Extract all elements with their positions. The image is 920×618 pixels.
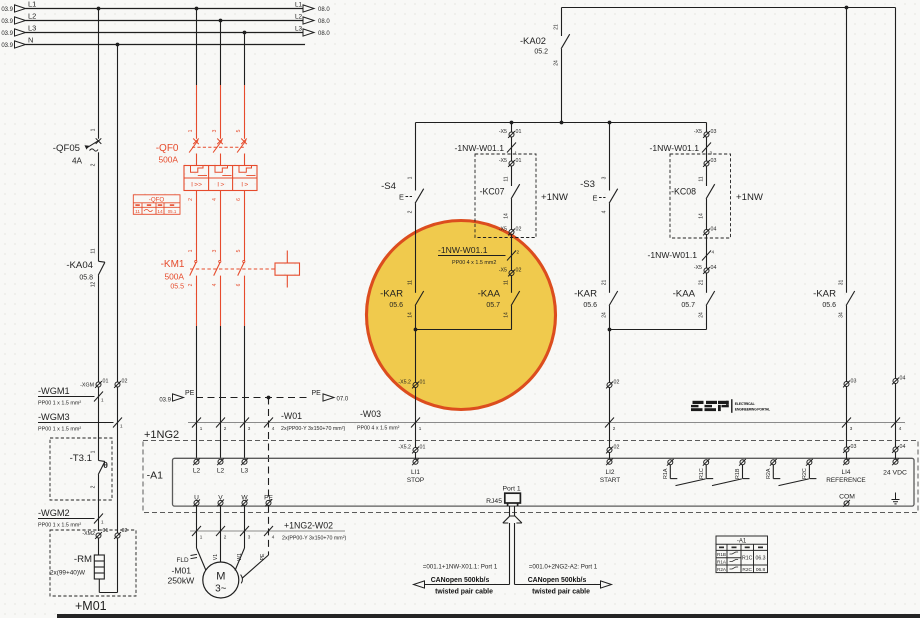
svg-text:11: 11 (408, 280, 414, 285)
svg-text:24: 24 (699, 312, 705, 318)
svg-text:L2: L2 (28, 12, 36, 21)
svg-text:05.7: 05.7 (486, 302, 500, 309)
svg-text:-X5.2: -X5.2 (398, 445, 411, 451)
svg-text:12: 12 (91, 282, 97, 288)
relay contact blade R2C (779, 479, 809, 486)
svg-text:500A: 500A (164, 272, 184, 282)
svg-text:03: 03 (711, 129, 717, 135)
svg-text:01: 01 (103, 379, 109, 385)
svg-text:1: 1 (120, 424, 123, 429)
svg-text:LI1: LI1 (411, 469, 420, 476)
node L2-QF0 (219, 19, 223, 23)
relay contact KA02 (561, 8, 563, 37)
svg-text:L2: L2 (193, 468, 201, 475)
wire L3 to QF0 pole 5 (244, 33, 246, 86)
svg-text:02: 02 (516, 268, 522, 274)
svg-text:N: N (28, 36, 33, 45)
svg-text:3: 3 (710, 151, 713, 156)
svg-text:twisted pair cable: twisted pair cable (435, 589, 493, 596)
svg-text:-RM: -RM (74, 554, 92, 565)
svg-text:05.1: 05.1 (168, 209, 177, 214)
svg-text:+1NW: +1NW (541, 192, 569, 203)
svg-text:R2C: R2C (742, 567, 752, 573)
svg-text:R1A: R1A (663, 468, 669, 479)
svg-text:R2A: R2A (766, 468, 772, 479)
svg-text:03: 03 (851, 444, 857, 450)
node top right (845, 6, 849, 10)
bus line L3 (26, 32, 304, 34)
svg-text:REFERENCE: REFERENCE (826, 477, 865, 484)
svg-text:3: 3 (850, 426, 853, 431)
svg-text:03.9: 03.9 (1, 19, 13, 25)
svg-text:14: 14 (157, 209, 163, 215)
svg-text:L1: L1 (28, 0, 36, 9)
bus line N (26, 44, 306, 46)
svg-text:2: 2 (613, 426, 616, 431)
svg-text:-KAA: -KAA (673, 289, 696, 300)
svg-text:03.9: 03.9 (1, 31, 13, 37)
svg-text:PP00 1 x 1.5 mm²: PP00 1 x 1.5 mm² (38, 401, 81, 407)
node S3 feed (608, 121, 612, 125)
svg-text:-1NW-W01.1: -1NW-W01.1 (647, 250, 697, 260)
svg-text:θ: θ (103, 460, 108, 470)
svg-text:24 VDC: 24 VDC (883, 470, 907, 477)
svg-text:ELECTRICAL: ELECTRICAL (735, 402, 756, 406)
A1 relay terminal R2C (806, 459, 813, 466)
svg-text:11: 11 (699, 176, 705, 181)
interlock enclosure 1NW KC08 (670, 154, 731, 238)
A1 relay terminal R1A (667, 459, 674, 466)
svg-text:5: 5 (236, 249, 242, 252)
svg-text:=001.1+1NW-X01.1: Port 1: =001.1+1NW-X01.1: Port 1 (423, 564, 498, 571)
svg-text:3: 3 (248, 426, 251, 431)
contactor KM1 pole 5 (244, 191, 246, 248)
braking resistor RM enclosure (50, 530, 136, 596)
svg-text:L3: L3 (28, 24, 36, 33)
svg-text:L2: L2 (295, 13, 303, 20)
wire to A1 24VDC (895, 384, 897, 448)
svg-text:03.9: 03.9 (1, 7, 13, 13)
A1 terminal LI4 (843, 458, 850, 465)
wire U to motor (196, 505, 198, 548)
svg-text:4: 4 (602, 210, 608, 213)
wire L1 to QF05 (98, 9, 100, 139)
wire QF05 to KA04 (98, 152, 100, 261)
svg-text:-W03: -W03 (360, 409, 381, 419)
svg-text:-1NW-W01.1: -1NW-W01.1 (454, 143, 504, 153)
svg-text:21: 21 (699, 280, 705, 286)
svg-text:-QF0: -QF0 (156, 143, 179, 154)
svg-text:I >: I > (217, 182, 224, 189)
relay contact blade R1B (712, 479, 742, 486)
svg-text:11: 11 (504, 280, 510, 285)
svg-text:-X5: -X5 (499, 158, 507, 164)
breaker QF0 release box (184, 166, 257, 191)
svg-text:02: 02 (614, 445, 620, 451)
wire L1 to QF0 pole 1 (196, 9, 198, 86)
terminal X5:03 (703, 131, 710, 138)
wire X5.2 to A1 LI1 (415, 388, 417, 448)
svg-text:3: 3 (602, 176, 608, 179)
svg-text:-S3: -S3 (580, 179, 595, 190)
svg-text:4A: 4A (72, 157, 83, 166)
node L3-QF0 (243, 31, 247, 35)
svg-text:2: 2 (224, 426, 227, 431)
svg-text:L2: L2 (217, 468, 225, 475)
svg-text:11: 11 (504, 176, 510, 181)
node KAR KAA join (414, 328, 418, 332)
svg-text:2: 2 (517, 250, 520, 255)
svg-text:START: START (600, 477, 620, 484)
PE wire to A1 (268, 398, 270, 500)
svg-text:-QF05: -QF05 (53, 143, 80, 154)
A1 relay terminal R1C (703, 459, 710, 466)
terminal X5.2:01 (412, 382, 419, 389)
svg-text:5: 5 (236, 129, 242, 132)
svg-text:05.2: 05.2 (534, 49, 548, 56)
wire KAA right join (610, 329, 707, 331)
svg-text:-KAR: -KAR (380, 289, 403, 300)
svg-text:-X5.2: -X5.2 (398, 380, 411, 386)
svg-text:-X5: -X5 (694, 129, 702, 135)
svg-text:01: 01 (516, 158, 522, 164)
wire N to XGM (117, 45, 119, 383)
svg-text:W1: W1 (237, 553, 243, 561)
svg-text:05.7: 05.7 (681, 302, 695, 309)
contactor KM1 pole 3 (220, 191, 222, 248)
terminal 03 (843, 381, 850, 388)
svg-text:PE: PE (312, 390, 322, 397)
wire bus to X5:03 (706, 123, 708, 133)
contactor KM1 pole 1 (196, 191, 198, 248)
svg-text:R2C: R2C (802, 468, 808, 479)
CAN arrow right (601, 581, 612, 588)
terminal X5:04 inner (703, 229, 710, 236)
wire KM1 pole 5 down (244, 276, 246, 326)
svg-text:3: 3 (212, 129, 218, 132)
wire KAR right down (846, 306, 848, 382)
svg-text:3: 3 (248, 535, 251, 540)
svg-text:-X5: -X5 (499, 129, 507, 135)
svg-text:CANopen 500kb/s: CANopen 500kb/s (431, 577, 490, 584)
A1 internal ground (892, 493, 900, 504)
svg-text:2x(PP00-Y 3x150+70 mm²): 2x(PP00-Y 3x150+70 mm²) (282, 536, 346, 542)
svg-text:2: 2 (91, 163, 97, 166)
svg-text:03.9: 03.9 (1, 43, 13, 49)
svg-text:04: 04 (711, 227, 717, 233)
svg-text:PP00 4 x 1.5 mm2: PP00 4 x 1.5 mm2 (452, 260, 496, 266)
svg-text:PP00 1 x 1.5 mm²: PP00 1 x 1.5 mm² (38, 427, 81, 433)
A1 relay terminal R2A (770, 459, 777, 466)
svg-text:R1B: R1B (717, 552, 726, 557)
svg-text:1: 1 (419, 426, 422, 431)
svg-text:08.0: 08.0 (318, 31, 330, 37)
svg-text:1: 1 (408, 176, 414, 179)
svg-text:4: 4 (899, 426, 902, 431)
interlock enclosure 1NW KC07 (475, 154, 536, 238)
svg-text:L1: L1 (295, 1, 303, 8)
terminal X5:02 inner (508, 229, 515, 236)
svg-text:05.6: 05.6 (389, 302, 403, 309)
svg-text:1: 1 (91, 128, 97, 131)
terminal X5:01 inner (508, 160, 515, 167)
bus line L2 (26, 20, 304, 22)
CAN bus wires (509, 523, 511, 585)
wire T3.1 to WGM2 (98, 475, 100, 531)
svg-text:-KA02: -KA02 (520, 35, 546, 46)
svg-text:RJ45: RJ45 (486, 498, 502, 505)
svg-text:02: 02 (122, 528, 128, 534)
wire W to motor (244, 505, 246, 548)
wire S3 to KAR mid (609, 203, 611, 292)
node KA02 feed (560, 121, 564, 125)
A1 input terminals L1 L2 L3 (193, 458, 200, 465)
wire to A1 LI2 (609, 388, 611, 448)
svg-text:-W01: -W01 (281, 411, 302, 421)
red QFO auxiliary table (133, 195, 180, 215)
svg-text:R1B: R1B (735, 468, 741, 479)
svg-text:-KC08: -KC08 (671, 187, 696, 197)
contactor KM1 coil (286, 251, 288, 264)
svg-text:-X5: -X5 (499, 227, 507, 233)
terminal X5.2:02 lower (606, 447, 613, 454)
wire KAA to join (511, 306, 513, 330)
svg-text:R1A: R1A (717, 560, 727, 565)
wire RM loop (98, 579, 100, 593)
svg-text:LI2: LI2 (606, 469, 615, 476)
svg-text:-KAA: -KAA (478, 289, 501, 300)
svg-text:+1NG2: +1NG2 (284, 521, 312, 531)
CAN arrow left (414, 581, 425, 588)
svg-text:3: 3 (212, 249, 218, 252)
node N (116, 43, 120, 47)
wire top to KAR right (846, 8, 848, 293)
svg-text:+1NW: +1NW (736, 192, 764, 203)
svg-text:-KM1: -KM1 (161, 259, 185, 270)
svg-text:21: 21 (554, 24, 560, 30)
svg-text:-1NW-W01.1: -1NW-W01.1 (438, 245, 488, 255)
svg-text:+1NG2: +1NG2 (144, 429, 179, 441)
svg-text:24: 24 (602, 312, 608, 318)
wire KA04 to XGM (98, 275, 100, 382)
svg-text:06.3: 06.3 (755, 556, 765, 562)
svg-text:1: 1 (200, 535, 203, 540)
svg-text:PE: PE (185, 390, 195, 397)
svg-text:-XGM: -XGM (80, 383, 94, 389)
svg-text:-W02: -W02 (312, 521, 333, 531)
relay contact blade R1C (676, 479, 706, 486)
svg-text:-M01: -M01 (172, 566, 192, 576)
svg-text:01: 01 (420, 445, 426, 451)
svg-text:31: 31 (839, 280, 845, 286)
node L1-QF05 (97, 7, 101, 11)
node S4 feed (510, 121, 514, 125)
svg-text:08.0: 08.0 (318, 7, 330, 13)
svg-text:CANopen 500kb/s: CANopen 500kb/s (528, 577, 587, 584)
svg-text:PP00 1 x 1.5 mm²: PP00 1 x 1.5 mm² (38, 523, 81, 529)
terminal X5:01 (508, 131, 515, 138)
svg-text:L3: L3 (241, 468, 249, 475)
svg-text:-KAR: -KAR (574, 289, 597, 300)
A1 terminal 24VDC (892, 458, 899, 465)
wire KAR mid down (609, 306, 611, 382)
title block edge (57, 614, 920, 618)
svg-text:M: M (216, 571, 225, 583)
wire N branch down (117, 387, 119, 533)
svg-text:4: 4 (212, 283, 218, 286)
svg-text:PP00 4 x 1.5 mm²: PP00 4 x 1.5 mm² (357, 426, 400, 432)
svg-text:11: 11 (135, 209, 140, 215)
svg-text:1: 1 (515, 151, 518, 156)
svg-text:COM: COM (839, 494, 855, 501)
svg-text:LI4: LI4 (842, 469, 851, 476)
yellow highlight circle (367, 221, 556, 410)
A1 terminal LI1 (412, 458, 419, 465)
svg-text:2: 2 (188, 283, 194, 286)
svg-text:2x(99+40)W: 2x(99+40)W (50, 570, 86, 577)
wire KAR to X5.2 (415, 306, 417, 382)
wire V to motor (220, 505, 222, 562)
svg-text:04: 04 (900, 444, 906, 450)
svg-text:E: E (399, 193, 404, 202)
cable 1NW-W01.1 core 4 (706, 235, 708, 269)
svg-text:1: 1 (188, 249, 194, 252)
node L1-QF0 (195, 7, 199, 11)
svg-text:I >>: I >> (191, 182, 202, 189)
svg-text:02: 02 (614, 380, 620, 386)
svg-text:03: 03 (851, 379, 857, 385)
terminal 04 (892, 378, 899, 385)
svg-text:FLD: FLD (177, 557, 189, 564)
wire PE to motor (268, 505, 270, 555)
wire KAA join (416, 329, 512, 331)
supply line top (562, 7, 896, 9)
svg-text:Port 1: Port 1 (503, 486, 521, 493)
svg-text:-T3.1: -T3.1 (70, 453, 92, 464)
svg-text:-XM2: -XM2 (82, 531, 95, 537)
control bus (416, 122, 707, 124)
svg-text:+M01: +M01 (75, 599, 107, 613)
svg-text:02: 02 (122, 379, 128, 385)
svg-text:34: 34 (839, 312, 845, 318)
svg-text:-S4: -S4 (381, 181, 397, 192)
svg-text:2: 2 (188, 198, 194, 201)
svg-text:R1C: R1C (699, 468, 705, 479)
svg-text:02: 02 (516, 227, 522, 233)
svg-text:V1: V1 (213, 554, 219, 560)
svg-text:250kW: 250kW (168, 576, 196, 586)
svg-text:14: 14 (699, 213, 705, 219)
svg-text:-KA04: -KA04 (66, 260, 93, 271)
svg-text:04: 04 (900, 376, 906, 382)
terminal X5.2:01 lower (412, 447, 419, 454)
A1 terminal LI2 (606, 458, 613, 465)
svg-text:14: 14 (408, 312, 414, 318)
svg-text:4: 4 (712, 250, 715, 255)
terminal 03 lower (843, 446, 850, 453)
node PE (267, 396, 271, 400)
svg-text:ENGINEERING PORTAL: ENGINEERING PORTAL (735, 408, 771, 412)
svg-text:-WGM1: -WGM1 (38, 386, 70, 396)
wire top to 24VDC (895, 8, 897, 379)
svg-text:05.8: 05.8 (79, 275, 93, 282)
bus line L1 (26, 8, 304, 10)
svg-text:6: 6 (236, 198, 242, 201)
svg-text:-1NW-W01.1: -1NW-W01.1 (649, 143, 699, 153)
svg-text:3~: 3~ (215, 584, 227, 595)
svg-text:06.8: 06.8 (756, 567, 766, 573)
EEP logo (691, 401, 729, 411)
wire S4 to KAR (415, 203, 417, 292)
svg-text:1: 1 (188, 129, 194, 132)
svg-text:21: 21 (602, 280, 608, 286)
svg-text:6: 6 (236, 283, 242, 286)
wire to A1 LI4 (846, 387, 848, 448)
CAN plug (509, 506, 511, 516)
svg-text:4: 4 (272, 426, 275, 431)
svg-text:1: 1 (101, 520, 104, 525)
svg-text:01: 01 (103, 528, 109, 534)
svg-text:R2A: R2A (717, 567, 727, 572)
svg-text:-X5: -X5 (694, 265, 702, 271)
svg-text:2x(PP00-Y 3x150+70 mm²): 2x(PP00-Y 3x150+70 mm²) (281, 426, 345, 432)
svg-text:I >: I > (241, 182, 248, 189)
svg-text:STOP: STOP (407, 477, 424, 484)
svg-text:PE: PE (260, 553, 266, 560)
wire KAA right to join (706, 306, 708, 330)
svg-text:1: 1 (101, 398, 104, 403)
svg-text:05.6: 05.6 (822, 302, 836, 309)
svg-text:2: 2 (224, 535, 227, 540)
thermal sensor T3.1 enclosure (50, 438, 112, 500)
svg-text:24: 24 (554, 60, 560, 66)
cable W02 (190, 530, 345, 532)
svg-text:01: 01 (420, 380, 426, 386)
wire bus to S3 (609, 123, 611, 191)
svg-text:2: 2 (408, 210, 414, 213)
wire KM1 pole 1 down (196, 276, 198, 326)
node KAR KAA join right (608, 328, 612, 332)
A1 relay terminal R1B (739, 459, 746, 466)
terminal X5:02 (508, 270, 515, 277)
svg-text:07.0: 07.0 (337, 397, 349, 403)
terminal X5:03 inner (703, 160, 710, 167)
svg-text:=001.0+2NG2-A2: Port 1: =001.0+2NG2-A2: Port 1 (529, 564, 598, 571)
wire L2 to QF0 pole 3 (220, 21, 222, 86)
svg-text:01: 01 (516, 129, 522, 135)
svg-text:14: 14 (504, 312, 510, 318)
svg-text:03: 03 (711, 158, 717, 164)
wire bus to S4 (415, 123, 417, 191)
svg-text:-WGM2: -WGM2 (38, 508, 70, 518)
svg-text:E: E (593, 194, 598, 203)
cable 1NW-W01.1 core 2 (511, 235, 513, 271)
A1 relay reference table (716, 536, 768, 573)
wire bus to X5:01 (511, 123, 513, 133)
wire XGM to WGM3 (98, 387, 100, 461)
svg-text:1: 1 (91, 450, 97, 453)
svg-text:500A: 500A (158, 155, 178, 165)
terminal X5.2:02 (606, 382, 613, 389)
wire KM1 pole 3 down (220, 276, 222, 326)
svg-text:-X5: -X5 (499, 268, 507, 274)
svg-text:05.6: 05.6 (583, 302, 597, 309)
svg-text:4: 4 (212, 198, 218, 201)
svg-text:-A1: -A1 (147, 470, 164, 482)
svg-text:-A1: -A1 (737, 539, 747, 545)
svg-text:08.0: 08.0 (318, 19, 330, 25)
contactor KM1 actuation link (190, 268, 275, 270)
